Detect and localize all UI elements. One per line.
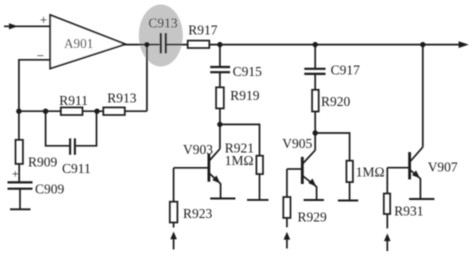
svg-text:R923: R923 (183, 206, 213, 221)
highlight ellipse around C913 (139, 5, 183, 67)
wire: V907 base (387, 167, 409, 169)
node: V905 collector junction (313, 130, 318, 135)
wire: R911 to R913 (83, 110, 104, 112)
capacitor C913 (161, 33, 166, 53)
svg-text:R911: R911 (59, 93, 88, 108)
wire: 1M to ground bar (349, 182, 351, 200)
wire: base to R929 (286, 169, 288, 197)
wire: R931 bottom stub (386, 214, 388, 228)
svg-text:C917: C917 (331, 63, 361, 78)
wire: feedback vertical from output node (146, 45, 148, 112)
resistor R923 (170, 202, 178, 223)
input arrow below R929 (284, 232, 291, 249)
capacitor C915 (210, 67, 230, 72)
node: rail at C915 (217, 42, 222, 47)
wire: R929 bottom stub (286, 218, 288, 227)
wire: feedback rail (19, 110, 61, 112)
input arrow below R923 (170, 232, 177, 250)
resistor R919 (216, 87, 224, 108)
wire: C915 to R919 (219, 72, 221, 87)
wire: R923 bottom stub (173, 223, 175, 228)
input arrow below R931 (384, 233, 391, 251)
svg-text:R917: R917 (188, 23, 218, 38)
ground bar of V903 emitter (210, 198, 235, 200)
wire: R913 to feedback vertical (125, 110, 147, 112)
resistor R921 (256, 156, 263, 174)
svg-text:C909: C909 (35, 181, 65, 196)
svg-text:R919: R919 (230, 88, 260, 103)
wire: to R909 (18, 111, 20, 140)
resistor R929 (283, 197, 290, 218)
node: rail at V907 (420, 42, 425, 47)
capacitor C911 (70, 138, 75, 154)
wire: R920 to V905 node (314, 112, 316, 134)
wire: base to R923 (173, 168, 175, 202)
svg-text:V905: V905 (282, 136, 312, 151)
wire: rail to C915 (219, 45, 221, 67)
ground bar of V907 emitter (409, 198, 434, 200)
node: V903 collector junction (217, 122, 222, 127)
wire: R909 to C909 (18, 164, 20, 183)
op-amp A901 (50, 15, 125, 69)
svg-text:1MΩ: 1MΩ (225, 153, 254, 168)
svg-text:V907: V907 (428, 160, 458, 175)
svg-text:A901: A901 (64, 36, 93, 51)
wire: C909 to ground bar (19, 189, 21, 209)
resistor R920 (312, 90, 319, 112)
wire: junction to 1M resistor (315, 133, 349, 161)
svg-text:C915: C915 (233, 64, 263, 79)
node: C911 left (43, 109, 48, 114)
wire: R921 to ground bar (259, 174, 261, 199)
svg-text:R920: R920 (321, 94, 351, 109)
svg-text:+: + (12, 166, 19, 180)
wire: C911 branch left (46, 111, 70, 146)
svg-text:V903: V903 (183, 142, 213, 157)
svg-text:R909: R909 (28, 155, 58, 170)
wire: junction to V903 collector (219, 124, 221, 148)
ground bar of 1M resistor (338, 200, 358, 202)
wire: junction to V905 collector (314, 133, 316, 150)
ground bar of R921 (247, 199, 269, 201)
transistor V907 (410, 147, 423, 198)
capacitor C909 (8, 182, 33, 188)
wire: base to R931 (386, 168, 388, 194)
wire: R919 to V903 node (219, 108, 221, 124)
wire: C911 branch right (76, 111, 97, 146)
wire: rail to V907 collector (422, 45, 424, 148)
input signal arrow (4, 23, 50, 29)
capacitor C917 (304, 69, 325, 74)
svg-text:R913: R913 (107, 91, 137, 106)
transistor V903 (209, 149, 221, 199)
resistor R913 (103, 107, 125, 115)
node: output junction (144, 42, 149, 47)
wire: C913 to R917 (167, 44, 188, 46)
wire: rail to C917 (314, 45, 316, 69)
node: rail at C917 (313, 42, 318, 47)
resistor 1M (V905 load) (346, 161, 353, 182)
wire: top rail with output arrow (209, 41, 469, 48)
svg-text:R931: R931 (394, 203, 423, 218)
node: C911 right (94, 109, 99, 114)
resistor R917 (188, 41, 210, 48)
resistor R909 (16, 140, 23, 164)
svg-text:−: − (37, 48, 44, 63)
svg-text:+: + (40, 12, 47, 27)
ground bar of C909 (10, 208, 31, 210)
wire: V905 base (287, 168, 302, 170)
svg-text:C911: C911 (62, 161, 91, 176)
wire: op-amp output to C913 (125, 44, 160, 46)
transistor V905 (302, 150, 316, 199)
resistor R911 (61, 107, 83, 115)
resistor R931 (384, 194, 390, 215)
wire: C917 to R920 (314, 74, 316, 90)
node: feedback left (16, 109, 21, 114)
wire: junction to R921 (220, 124, 260, 155)
svg-text:C913: C913 (148, 15, 178, 30)
wire: V903 base (174, 167, 209, 169)
wire: inverting input to feedback rail (19, 60, 50, 111)
ground bar of V905 emitter (304, 199, 324, 201)
svg-text:R929: R929 (298, 209, 328, 224)
svg-text:1MΩ: 1MΩ (356, 164, 385, 179)
